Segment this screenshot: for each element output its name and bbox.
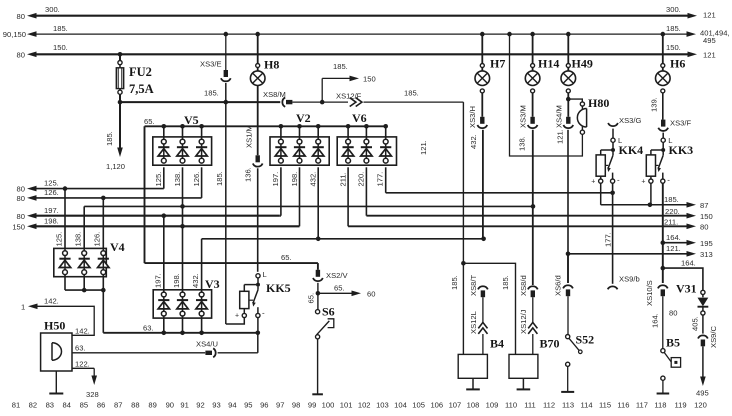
- svg-text:106: 106: [430, 401, 443, 410]
- thermal relay KK4: [611, 138, 615, 142]
- svg-text:119: 119: [674, 401, 686, 410]
- wire from XS6/d to switch S52: [567, 296, 569, 334]
- svg-text:185.: 185.: [333, 62, 348, 71]
- wire V2 third leg down to line 432: [317, 167, 319, 239]
- svg-text:1,120: 1,120: [106, 162, 125, 171]
- node junction V5 diode wire on bus 65: [162, 124, 167, 129]
- svg-text:164.: 164.: [651, 313, 660, 328]
- wire 185 line to right arrow 87: [601, 204, 650, 206]
- node junction V5 diode wire on bus 65: [180, 124, 185, 129]
- svg-text:V2: V2: [296, 111, 311, 125]
- ground of S52: [561, 391, 574, 393]
- connector XS4/M under H49: [567, 93, 569, 117]
- wire V3 third leg up corner: [201, 239, 203, 292]
- svg-text:197.: 197.: [153, 273, 162, 288]
- buzzer H80: [580, 102, 584, 106]
- wire branch to B70 left pin: [463, 263, 515, 354]
- svg-text:120: 120: [694, 401, 707, 410]
- svg-text:L: L: [263, 270, 267, 279]
- wire from XS12/L into B4: [482, 334, 484, 354]
- svg-text:-: -: [617, 176, 620, 185]
- svg-text:63.: 63.: [75, 344, 86, 353]
- svg-text:138.: 138.: [173, 172, 182, 187]
- wire 405 from V31 to connector XS9/C: [702, 315, 704, 334]
- svg-text:138.: 138.: [518, 136, 527, 151]
- svg-text:102: 102: [358, 401, 371, 410]
- thermal relay KK5: [256, 274, 260, 278]
- wire from XS2/V down to node 65: [317, 283, 319, 294]
- svg-text:185.: 185.: [105, 131, 114, 146]
- svg-text:185.: 185.: [204, 89, 219, 98]
- svg-text:177.: 177.: [604, 232, 613, 247]
- connector XS8/M: [282, 97, 285, 106]
- wire 125 from V5 to left arrow 80: [34, 188, 164, 190]
- svg-text:121.: 121.: [556, 129, 565, 144]
- wire 177 KK4 minus down to connector XS9/b: [612, 183, 614, 284]
- node junction H80 return wire on bus 185: [507, 32, 512, 37]
- wire 65 branch arrow to sheet 60: [318, 292, 354, 294]
- svg-text:113: 113: [562, 401, 574, 410]
- node junction V2 diode wire on bus 65: [297, 124, 302, 129]
- svg-text:-: -: [262, 309, 265, 318]
- node junction V4 right diode on bottom bus: [101, 288, 106, 293]
- left arrow of bus 300 to sheet 80: [27, 13, 37, 19]
- svg-text:125.: 125.: [154, 172, 163, 187]
- wire V2 second leg down to line 198: [299, 167, 301, 226]
- svg-text:99: 99: [308, 401, 316, 410]
- node junction V4 wire on line 125: [63, 186, 68, 191]
- ground of H50: [49, 393, 63, 395]
- svg-text:H80: H80: [588, 96, 609, 110]
- svg-text:92: 92: [196, 401, 204, 410]
- svg-text:115: 115: [599, 401, 611, 410]
- block B4: [458, 354, 487, 378]
- svg-text:XS3/H: XS3/H: [468, 106, 477, 128]
- connector XS4/U: [205, 351, 212, 355]
- svg-text:121.: 121.: [419, 140, 428, 155]
- wire H50 to ground: [55, 371, 57, 393]
- lamp H6: [662, 34, 664, 63]
- svg-text:89: 89: [148, 401, 156, 410]
- wire V4 third leg up to line 126: [102, 198, 104, 251]
- svg-text:108: 108: [467, 401, 480, 410]
- svg-text:220.: 220.: [665, 207, 680, 216]
- svg-text:V31: V31: [676, 282, 697, 296]
- svg-text:XS3/M: XS3/M: [519, 105, 528, 128]
- diode block V3: [153, 290, 211, 318]
- wire 121 from S52 node to right arrow 313: [568, 253, 689, 255]
- wire V3 second leg down to line 63: [182, 316, 184, 333]
- svg-text:80: 80: [17, 212, 25, 221]
- svg-text:82: 82: [29, 401, 37, 410]
- node junction line 432 on H7 wire: [481, 237, 486, 242]
- svg-text:80: 80: [17, 12, 25, 21]
- wire 63 from V4 bottom bus down to line 63: [102, 290, 104, 333]
- svg-text:+: +: [591, 179, 595, 186]
- node junction V31 branch on wire 164: [661, 266, 666, 271]
- svg-text:V6: V6: [352, 111, 367, 125]
- svg-text:V4: V4: [110, 240, 125, 254]
- wire branch to H80 top pin: [568, 99, 582, 102]
- connector XS12/J (chevrons): [528, 322, 537, 328]
- switch S6: [317, 293, 319, 309]
- svg-text:121: 121: [703, 11, 716, 20]
- svg-text:90: 90: [166, 401, 174, 410]
- svg-text:116: 116: [617, 401, 629, 410]
- wire B5 to ground: [662, 380, 664, 393]
- svg-text:80: 80: [700, 222, 708, 231]
- connector XS12/F (double chevron): [348, 97, 364, 108]
- svg-text:96: 96: [260, 401, 268, 410]
- svg-text:94: 94: [228, 401, 236, 410]
- wire 139 from H6 to connector XS3/F: [662, 93, 664, 120]
- svg-text:112: 112: [543, 401, 555, 410]
- node junction 65 branch: [316, 291, 321, 296]
- svg-text:185.: 185.: [501, 275, 510, 290]
- svg-text:86: 86: [97, 401, 105, 410]
- svg-text:150: 150: [363, 74, 376, 83]
- svg-text:104: 104: [394, 401, 407, 410]
- wire riser from XS4/U line up to line 63 node: [257, 333, 259, 353]
- svg-text:XS12/J: XS12/J: [519, 309, 528, 334]
- left arrow of bus 150 to sheet 80: [27, 52, 37, 58]
- lamp H14: [532, 34, 534, 63]
- node junction line 63 / KK5 minus / XS4U riser: [255, 331, 260, 336]
- svg-text:105: 105: [412, 401, 425, 410]
- svg-text:101: 101: [340, 401, 353, 410]
- svg-text:S52: S52: [576, 333, 595, 347]
- svg-text:80: 80: [17, 185, 25, 194]
- svg-text:211.: 211.: [338, 172, 347, 186]
- wire from bus 185 down to connector XS3/E: [225, 34, 227, 70]
- node branch junction to 150-arrow: [320, 100, 325, 105]
- svg-text:185.: 185.: [664, 195, 679, 204]
- svg-text:63.: 63.: [143, 324, 154, 333]
- svg-text:198.: 198.: [44, 216, 59, 225]
- svg-text:83: 83: [46, 401, 54, 410]
- svg-text:107: 107: [449, 401, 462, 410]
- svg-text:65.: 65.: [281, 253, 292, 262]
- wire from XS8/d to connector XS12/J: [532, 297, 534, 322]
- wire V4 first leg up to line 125: [64, 189, 66, 251]
- svg-text:80: 80: [669, 309, 677, 318]
- svg-text:138.: 138.: [74, 232, 83, 247]
- svg-text:150.: 150.: [53, 43, 68, 52]
- svg-text:98: 98: [292, 401, 300, 410]
- svg-text:405.: 405.: [691, 316, 700, 331]
- svg-text:117: 117: [636, 401, 648, 410]
- block B70: [509, 354, 538, 378]
- svg-text:95: 95: [244, 401, 252, 410]
- wire 211 from V6 first leg to right arrow 80: [347, 167, 349, 226]
- connector XS3/M under H14: [532, 93, 534, 117]
- diode block V4: [54, 248, 107, 276]
- svg-text:185.: 185.: [450, 275, 459, 290]
- svg-text:150: 150: [700, 212, 713, 221]
- lamp H8: [257, 34, 259, 63]
- wire 65 horizontal to connector XS2/V: [145, 262, 318, 264]
- ground of B70: [522, 378, 524, 389]
- svg-text:118: 118: [654, 401, 666, 410]
- svg-text:100: 100: [322, 401, 335, 410]
- node junction wire 177 on KK4 minus wire: [610, 191, 615, 196]
- node junction of FU2 with wire 185 feed: [118, 100, 123, 105]
- svg-text:142.: 142.: [75, 326, 90, 335]
- wire from XS8/T to connector XS12/L: [482, 297, 484, 322]
- wire bus 150 (third horizontal line): [35, 53, 689, 55]
- svg-text:150: 150: [12, 222, 25, 231]
- svg-text:XS12/F: XS12/F: [336, 91, 362, 100]
- svg-text:H50: H50: [44, 319, 65, 333]
- svg-text:164.: 164.: [681, 258, 696, 267]
- wire 495 arrow down from XS9/C: [702, 346, 704, 379]
- wire 126 from V5 to left arrow 80: [34, 197, 202, 199]
- connector XS8/T on B4 wire: [478, 286, 488, 289]
- node junction V2 diode wire on bus 65: [279, 124, 284, 129]
- svg-text:81: 81: [12, 401, 20, 410]
- svg-text:H14: H14: [538, 57, 559, 71]
- wire 185 down-feed from FU2 to sheet 1,120 (arrow): [119, 102, 121, 150]
- node junction H14 on bus 185: [530, 32, 535, 37]
- svg-text:185.: 185.: [666, 24, 681, 33]
- diode V31: [701, 290, 705, 294]
- svg-text:122.: 122.: [75, 359, 90, 368]
- node junction XS3/E wire on bus 185: [224, 32, 229, 37]
- svg-text:7,5A: 7,5A: [129, 82, 154, 96]
- svg-text:XS1/M: XS1/M: [245, 125, 254, 148]
- svg-text:90,150: 90,150: [3, 30, 26, 39]
- svg-text:84: 84: [62, 401, 70, 410]
- ruler scale numbers 81-120: [12, 401, 707, 410]
- svg-text:142.: 142.: [44, 296, 59, 305]
- svg-text:H7: H7: [490, 57, 505, 71]
- svg-text:197.: 197.: [271, 172, 280, 187]
- wire 185 from XS3/E junction down to KK5 plus (long vertical): [225, 83, 227, 102]
- wire 197 thick line to left arrow 80: [34, 215, 279, 217]
- node junction V3 third leg on line 63: [199, 331, 204, 336]
- svg-text:KK3: KK3: [669, 143, 694, 157]
- svg-text:220.: 220.: [357, 172, 366, 187]
- left arrow of bus 185 to sheets 90,150: [27, 31, 37, 37]
- svg-text:65.: 65.: [144, 117, 155, 126]
- node junction H7 on bus 185: [480, 32, 485, 37]
- connector XS3/E: [224, 70, 228, 77]
- node junction V6 diode wire on bus 65: [383, 124, 388, 129]
- diode block V2: [270, 137, 329, 165]
- wire 220 from V6 second leg to right arrow 150: [365, 167, 367, 215]
- wire V3 first leg down to line 63: [163, 316, 165, 333]
- connector XS6/d: [567, 254, 569, 283]
- wire 121 corner from XS12/F line down to B4: [462, 102, 464, 354]
- svg-text:1: 1: [21, 302, 25, 311]
- wire V4 bottom bus: [64, 275, 66, 291]
- svg-text:198.: 198.: [172, 273, 181, 288]
- svg-text:B5: B5: [666, 336, 680, 350]
- svg-text:XS8/M: XS8/M: [263, 90, 286, 99]
- svg-text:114: 114: [580, 401, 592, 410]
- wire from XS12/J into B70: [532, 334, 534, 354]
- wire 63 horizontal line from V4 leg to KK5/XS4U node: [103, 332, 257, 334]
- wire S52 to ground: [567, 366, 569, 391]
- node junction H80 branch on H49 wire: [566, 97, 571, 102]
- node junction V3 first wire on line 197: [162, 213, 167, 218]
- node junction V6 diode wire on bus 65: [346, 124, 351, 129]
- node junction H6 on bus 185: [661, 32, 666, 37]
- wire 142 from H50 pin1 to left arrow 1: [36, 306, 94, 335]
- diode block V5: [153, 137, 212, 165]
- wire 198 thick line to left arrow 150: [34, 225, 299, 227]
- svg-text:432.: 432.: [469, 134, 478, 149]
- svg-text:XS3/G: XS3/G: [619, 116, 641, 125]
- wire from H80 down-left-up to bus 185 drop: [510, 34, 583, 156]
- svg-text:65.: 65.: [334, 283, 345, 292]
- diode block V6: [337, 137, 396, 165]
- wire 63 from H50 pin2 to connector XS4/U: [72, 352, 205, 354]
- wire 185 horizontal from FU2 to connector XS8/M: [120, 101, 280, 103]
- svg-text:87: 87: [700, 201, 708, 210]
- connector XS3/F: [661, 120, 665, 127]
- wire branch up to sheet-150 arrow: [321, 78, 323, 102]
- wire 432 from V3 via V2 to H7 wire: [202, 238, 484, 240]
- wire S6 to ground: [317, 339, 319, 394]
- node junction V5/V3 leg on line 198: [180, 224, 185, 229]
- svg-text:313: 313: [700, 250, 713, 259]
- svg-text:87: 87: [114, 401, 122, 410]
- svg-text:XS3/E: XS3/E: [200, 59, 222, 68]
- svg-text:126.: 126.: [93, 232, 102, 247]
- wire 177 from V6 third leg to KK4 minus wire: [385, 167, 387, 193]
- svg-text:185.: 185.: [215, 171, 224, 186]
- connector XS9/b (open socket): [608, 286, 618, 289]
- connector XS12/L (chevrons): [478, 322, 487, 328]
- wire 164 from XS10/S down to switch B5: [662, 296, 664, 348]
- svg-text:139.: 139.: [650, 97, 659, 112]
- wire 185 from XS8/M to corner at x=463: [292, 101, 463, 103]
- svg-text:XS8/T: XS8/T: [469, 275, 478, 296]
- svg-text:XS4/M: XS4/M: [555, 105, 564, 128]
- lamp H49: [567, 34, 569, 63]
- node junction V2 third wire on line 432: [316, 237, 321, 242]
- svg-text:126.: 126.: [44, 188, 59, 197]
- thermal relay KK3: [661, 138, 665, 142]
- right arrow of bus 300 to sheet 121: [688, 13, 698, 19]
- node junction V4 wire on line 126: [101, 196, 106, 201]
- svg-text:H8: H8: [264, 58, 279, 72]
- svg-text:KK5: KK5: [266, 281, 291, 295]
- node junction S52 drop on wire 121: [566, 252, 571, 257]
- node junction V2 diode wire on bus 65: [316, 124, 321, 129]
- svg-text:88: 88: [131, 401, 139, 410]
- svg-text:150.: 150.: [666, 43, 681, 52]
- svg-text:103: 103: [376, 401, 389, 410]
- wire bus 185 (second horizontal line): [35, 33, 688, 35]
- switch B5 (pressure): [661, 349, 665, 353]
- svg-text:121.: 121.: [666, 244, 681, 253]
- svg-text:93: 93: [212, 401, 220, 410]
- node junction of FU2 on bus 150: [118, 52, 123, 57]
- svg-text:B70: B70: [540, 337, 560, 351]
- svg-text:495: 495: [696, 389, 709, 398]
- right arrow of bus 185 to sheets 401,494,495: [687, 31, 697, 37]
- wire 138 from V4 via V5 to H14 wire: [84, 205, 533, 207]
- ground of B4: [472, 378, 474, 389]
- svg-text:XS3/F: XS3/F: [670, 119, 691, 128]
- wire bus 65 feeding diode blocks V5 V2 V6: [145, 125, 386, 127]
- node junction V6 diode wire on bus 65: [364, 124, 369, 129]
- wire bus 300 (top horizontal line): [35, 15, 689, 17]
- lamp H7: [481, 34, 483, 63]
- svg-text:109: 109: [486, 401, 499, 410]
- wire V4 second leg up to line 138: [83, 206, 85, 250]
- svg-text:195: 195: [700, 239, 713, 248]
- ground of S6: [312, 393, 323, 395]
- wire V3 first leg down from line 197: [163, 216, 165, 292]
- fuse FU2 7,5A: [119, 54, 121, 60]
- svg-text:125.: 125.: [55, 232, 64, 247]
- wire 136 from XS1/M down to KK5 pin L: [257, 168, 259, 271]
- svg-text:+: +: [235, 313, 239, 320]
- connector XS10/S: [658, 285, 668, 288]
- connector XS3/H under H7: [481, 93, 483, 117]
- wire from XS3/F to KK3 pin L: [662, 133, 664, 139]
- svg-text:XS6/d: XS6/d: [554, 275, 563, 296]
- svg-text:B4: B4: [490, 337, 504, 351]
- svg-text:-: -: [667, 176, 670, 185]
- svg-text:495: 495: [703, 36, 716, 45]
- svg-text:XS9/C: XS9/C: [709, 326, 718, 348]
- svg-text:60: 60: [367, 289, 375, 298]
- svg-text:198.: 198.: [290, 172, 299, 187]
- wire bus 65 left leg down to XS2/V line: [144, 126, 146, 263]
- svg-text:177.: 177.: [375, 172, 384, 187]
- svg-text:FU2: FU2: [129, 65, 152, 79]
- svg-text:V5: V5: [184, 113, 199, 127]
- connector XS1/M: [256, 155, 260, 162]
- node junction V3 first leg on line 63: [162, 331, 167, 336]
- svg-text:185.: 185.: [53, 24, 68, 33]
- wire 164 KK3 minus down to XS10/S: [662, 183, 664, 283]
- svg-text:185.: 185.: [404, 88, 419, 97]
- svg-text:80: 80: [17, 194, 25, 203]
- svg-text:XS8/d: XS8/d: [519, 275, 528, 296]
- connector XS8/d on B70 wire: [528, 286, 538, 289]
- svg-text:164.: 164.: [666, 233, 681, 242]
- node junction B70 branch on B4 feed wire: [461, 261, 466, 266]
- svg-text:432.: 432.: [309, 172, 318, 187]
- wire from H8 down to connector XS1/M: [257, 86, 259, 156]
- wire KK4 plus down to line 87: [600, 183, 602, 205]
- wire branch to diode V31: [663, 268, 703, 290]
- svg-text:126.: 126.: [192, 172, 201, 187]
- wire KK5 plus to XS3/E net (U-shape): [226, 318, 245, 324]
- svg-text:300.: 300.: [45, 5, 60, 14]
- svg-text:XS12L: XS12L: [469, 311, 478, 334]
- svg-text:80: 80: [17, 50, 25, 59]
- svg-text:211.: 211.: [664, 218, 678, 227]
- node junction H49 on bus 185: [566, 32, 571, 37]
- svg-text:328: 328: [86, 390, 99, 399]
- svg-text:+: +: [641, 179, 645, 186]
- node junction line 138 on H14 wire: [531, 204, 536, 209]
- switch S52: [566, 335, 570, 339]
- node junction H8 on bus 185: [255, 32, 260, 37]
- node junction arrow 195 on wire 164: [661, 240, 666, 245]
- wire 138 from XS3/M down to B70 via XS8/d: [532, 130, 534, 285]
- svg-text:300.: 300.: [666, 5, 681, 14]
- svg-text:197.: 197.: [44, 206, 59, 215]
- horn H50: [41, 333, 72, 371]
- connector XS9/C: [698, 335, 708, 338]
